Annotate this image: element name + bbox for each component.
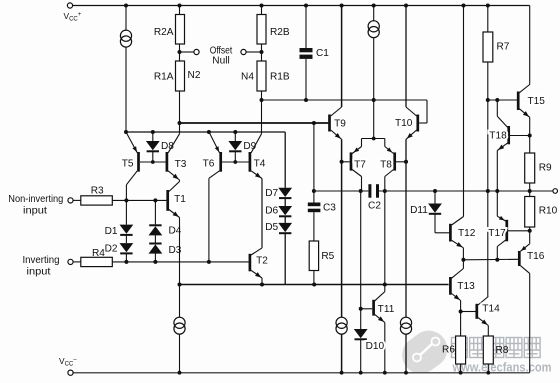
svg-text:T7: T7 <box>354 160 366 171</box>
svg-text:T6: T6 <box>203 159 215 170</box>
svg-text:R6: R6 <box>442 345 455 356</box>
svg-text:T10: T10 <box>395 118 413 129</box>
svg-text:T17: T17 <box>488 228 506 239</box>
svg-text:T14: T14 <box>482 304 500 315</box>
svg-text:T18: T18 <box>489 131 507 142</box>
svg-text:D5: D5 <box>265 222 278 233</box>
svg-text:T12: T12 <box>458 228 476 239</box>
svg-text:Non-inverting: Non-inverting <box>8 194 63 205</box>
svg-text:C2: C2 <box>368 201 381 212</box>
svg-text:D9: D9 <box>243 141 256 152</box>
svg-text:T11: T11 <box>378 304 395 315</box>
svg-text:T13: T13 <box>457 281 475 292</box>
svg-text:C3: C3 <box>323 203 336 214</box>
svg-text:R10: R10 <box>539 206 558 217</box>
svg-text:T8: T8 <box>380 160 392 171</box>
svg-text:R9: R9 <box>539 163 552 174</box>
svg-text:R2B: R2B <box>270 27 290 38</box>
svg-text:Inverting: Inverting <box>23 255 60 266</box>
svg-text:D7: D7 <box>265 188 278 199</box>
svg-text:N2: N2 <box>188 70 201 81</box>
svg-text:R1A: R1A <box>154 72 174 83</box>
svg-text:R8: R8 <box>496 345 509 356</box>
svg-text:D3: D3 <box>169 245 182 256</box>
svg-text:D4: D4 <box>169 226 182 237</box>
svg-text:R5: R5 <box>321 251 334 262</box>
svg-text:T4: T4 <box>254 159 266 170</box>
svg-text:D2: D2 <box>105 244 118 255</box>
svg-text:T5: T5 <box>122 159 134 170</box>
svg-text:T1: T1 <box>174 194 186 205</box>
svg-text:R4: R4 <box>92 248 105 259</box>
svg-text:D8: D8 <box>161 141 174 152</box>
svg-text:R1B: R1B <box>270 72 290 83</box>
svg-text:T9: T9 <box>334 119 346 130</box>
svg-text:T3: T3 <box>175 159 187 170</box>
svg-text:N4: N4 <box>241 71 254 82</box>
svg-text:T2: T2 <box>256 255 268 266</box>
svg-text:T16: T16 <box>527 251 545 262</box>
svg-text:R3: R3 <box>91 186 104 197</box>
svg-text:C1: C1 <box>316 48 329 59</box>
svg-text:Null: Null <box>212 56 229 67</box>
svg-text:D1: D1 <box>105 226 118 237</box>
svg-text:T15: T15 <box>528 96 546 107</box>
svg-text:input: input <box>23 206 47 217</box>
svg-text:D11: D11 <box>410 205 428 216</box>
svg-text:R7: R7 <box>497 42 510 53</box>
svg-text:input: input <box>27 267 51 278</box>
svg-text:D10: D10 <box>366 341 385 352</box>
svg-text:R2A: R2A <box>154 27 174 38</box>
svg-text:D6: D6 <box>265 205 278 216</box>
